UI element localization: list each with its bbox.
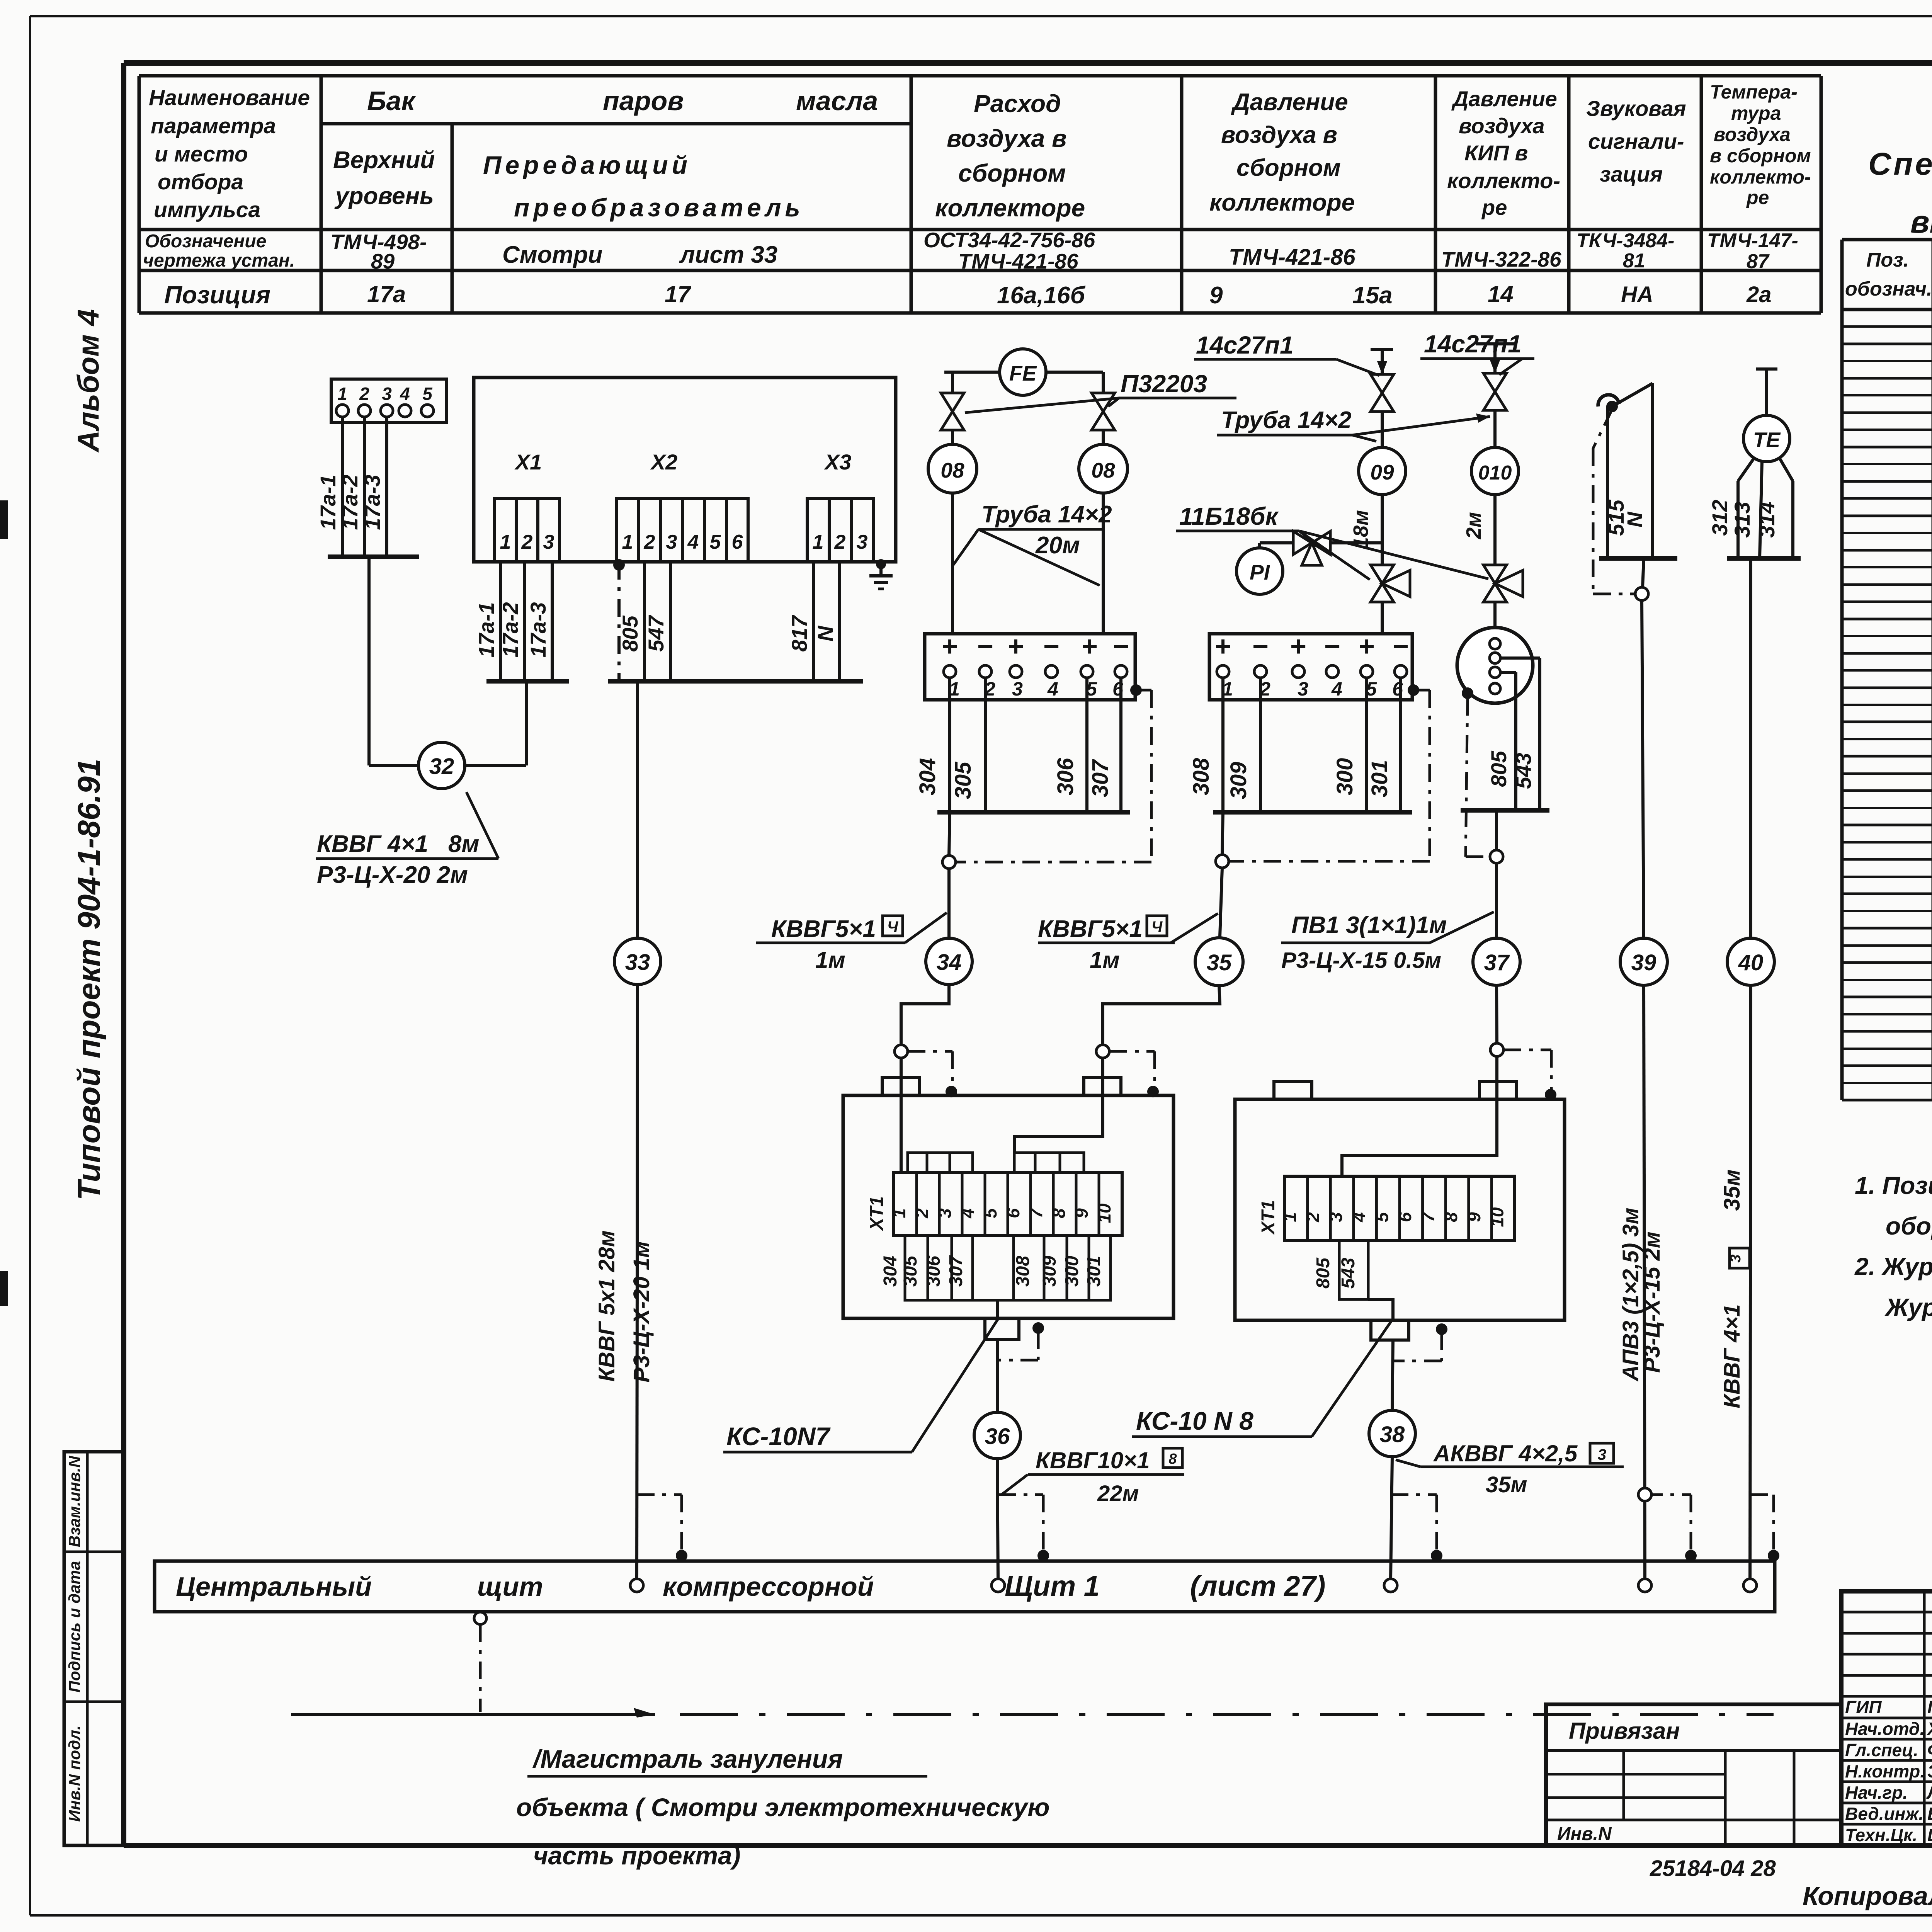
svg-text:ТМЧ-322-86: ТМЧ-322-86 <box>1441 247 1561 271</box>
svg-text:зация: зация <box>1600 162 1663 186</box>
svg-text:TE: TE <box>1753 428 1781 452</box>
valve П32203 right <box>1092 372 1115 444</box>
label 14с27п1 (09) <box>1194 331 1379 376</box>
svg-text:объекта ( Смотри электротехни: объекта ( Смотри электротехническую <box>516 1793 1050 1821</box>
N8 exit wire <box>1368 1299 1447 1410</box>
label 14с27п1 (010) <box>1420 330 1534 375</box>
svg-text:3: 3 <box>935 1208 955 1218</box>
svg-text:преобразователь: преобразователь <box>514 193 804 222</box>
valve П32203 left <box>941 372 964 444</box>
svg-text:внешних: внешних <box>1910 204 1932 240</box>
svg-text:щит: щит <box>477 1571 543 1602</box>
svg-text:параметра: параметра <box>151 114 276 138</box>
terminal box A (1..5) <box>331 379 447 422</box>
svg-text:33: 33 <box>625 950 650 975</box>
svg-text:14с27п1: 14с27п1 <box>1196 331 1294 359</box>
svg-text:5: 5 <box>422 384 433 404</box>
svg-text:3: 3 <box>666 531 677 553</box>
wire 37 inside N8 <box>1342 1099 1497 1176</box>
label Труба 14х2 20м left <box>953 501 1112 585</box>
three-way cock on 010 line <box>1483 565 1523 628</box>
svg-text:2: 2 <box>359 384 369 404</box>
svg-text:7: 7 <box>1026 1207 1046 1218</box>
svg-text:X2: X2 <box>650 450 678 474</box>
pipe stub 010 <box>1476 344 1517 373</box>
svg-text:X3: X3 <box>824 450 852 474</box>
svg-text:ре: ре <box>1481 195 1507 219</box>
shield dashdot taps above bus <box>637 1488 1779 1561</box>
svg-text:Спецификация: Спецификация <box>1868 146 1932 182</box>
svg-text:817: 817 <box>787 614 811 651</box>
svg-text:Р3-Ц-Х-20 2м: Р3-Ц-Х-20 2м <box>317 862 468 888</box>
svg-text:17а-2: 17а-2 <box>338 474 362 530</box>
svg-text:309: 309 <box>1039 1256 1060 1287</box>
svg-text:308: 308 <box>1013 1256 1033 1287</box>
svg-text:импульса: импульса <box>154 197 260 222</box>
svg-text:−: − <box>1324 631 1340 662</box>
privyazan box <box>1546 1704 1841 1845</box>
svg-text:8: 8 <box>1168 1451 1177 1467</box>
node 34 <box>926 938 972 985</box>
svg-text:Центральный: Центральный <box>176 1571 372 1602</box>
node 40 <box>1719 938 1774 1580</box>
node 08 left <box>928 444 977 634</box>
svg-text:25184-04 28: 25184-04 28 <box>1650 1856 1776 1881</box>
svg-text:−: − <box>1113 631 1129 662</box>
svg-text:Давление: Давление <box>1231 89 1348 116</box>
svg-text:6: 6 <box>1003 1208 1023 1218</box>
svg-text:и место: и место <box>155 142 248 167</box>
svg-text:9: 9 <box>1464 1212 1484 1222</box>
thermocouple TE <box>1743 369 1790 462</box>
label Труба 14х2 (right) <box>1217 407 1490 441</box>
svg-text:КВВГ 4×1: КВВГ 4×1 <box>317 831 428 857</box>
wire 33 to shield bus <box>594 985 654 1580</box>
svg-text:Р3-Ц-Х-20 1м: Р3-Ц-Х-20 1м <box>629 1241 654 1383</box>
svg-text:306: 306 <box>923 1256 944 1287</box>
svg-text:(лист 27): (лист 27) <box>1190 1570 1325 1602</box>
three-way cock at PI <box>1293 531 1382 565</box>
svg-text:2. Журнал: 2. Журнал <box>1854 1253 1932 1281</box>
wires 805 543 (connector) <box>1461 698 1549 857</box>
svg-text:8: 8 <box>1049 1208 1069 1218</box>
svg-text:39: 39 <box>1631 950 1656 975</box>
svg-text:5: 5 <box>980 1208 1000 1218</box>
svg-text:38: 38 <box>1380 1422 1405 1447</box>
valve 14с27п1 on 09 line <box>1371 374 1394 447</box>
svg-text:305: 305 <box>900 1255 921 1287</box>
wire 35 inside N7 <box>1014 1095 1103 1153</box>
strip X1 <box>495 498 560 562</box>
pressure gauge PI <box>1236 543 1293 594</box>
svg-text:отбора: отбора <box>158 170 243 194</box>
svg-text:тура: тура <box>1731 102 1781 124</box>
svg-text:КВВГ 5х1 28м: КВВГ 5х1 28м <box>594 1230 619 1381</box>
svg-text:Вед.инж.: Вед.инж. <box>1845 1804 1923 1824</box>
wire 37 into box КС-10N8 <box>1490 985 1556 1100</box>
specification table <box>1842 240 1932 1100</box>
flow element FE <box>944 349 1103 395</box>
svg-text:17а-1: 17а-1 <box>316 474 340 530</box>
label КВВГ10х1 [8] 22м <box>1002 1447 1184 1506</box>
svg-text:Григорьян: Григорьян <box>1927 1697 1932 1717</box>
svg-text:Золотарева: Золотарева <box>1927 1761 1932 1781</box>
svg-text:309: 309 <box>1226 762 1251 799</box>
label 11Б18бк <box>1176 502 1488 580</box>
pipe stub 09 <box>1371 350 1393 374</box>
grounding main tap <box>474 1612 486 1712</box>
svg-text:Подпись и дата: Подпись и дата <box>65 1561 83 1692</box>
svg-text:коллекторе: коллекторе <box>1209 189 1355 216</box>
wire 35 into box КС-10N7 right <box>1096 986 1220 1097</box>
svg-text:ТКЧ-3484-: ТКЧ-3484- <box>1577 230 1674 252</box>
svg-text:компрессорной: компрессорной <box>663 1571 874 1602</box>
valve 14с27п1 on 010 line <box>1483 373 1507 447</box>
svg-text:543: 543 <box>1511 753 1536 789</box>
svg-text:Обозначение: Обозначение <box>145 231 266 252</box>
svg-text:307: 307 <box>1088 759 1113 798</box>
svg-text:+: + <box>1082 631 1098 662</box>
label КС-10N7 <box>723 1320 998 1452</box>
svg-text:Труба 14×2: Труба 14×2 <box>1221 407 1352 434</box>
svg-text:805: 805 <box>1313 1257 1333 1289</box>
svg-text:КС-10N7: КС-10N7 <box>726 1422 831 1451</box>
svg-text:Копировал: Копировал <box>1803 1881 1932 1911</box>
svg-text:сигнали-: сигнали- <box>1588 129 1684 153</box>
junction box КС-10 N7 <box>843 1078 1173 1318</box>
svg-text:Техн.Цк.: Техн.Цк. <box>1845 1825 1917 1845</box>
svg-text:лист 33: лист 33 <box>679 241 777 268</box>
svg-text:ре: ре <box>1746 187 1769 208</box>
svg-text:2: 2 <box>521 531 533 553</box>
svg-text:35: 35 <box>1207 950 1232 975</box>
label КС-10N8 <box>1132 1321 1391 1437</box>
wire to node 37 <box>1490 810 1503 938</box>
svg-text:4: 4 <box>957 1208 978 1219</box>
svg-text:Нач.гр.: Нач.гр. <box>1845 1782 1908 1803</box>
svg-text:09: 09 <box>1370 460 1394 484</box>
svg-text:314: 314 <box>1755 502 1779 537</box>
svg-text:Привязан: Привязан <box>1569 1718 1680 1744</box>
svg-text:−: − <box>977 631 993 662</box>
svg-text:КВВГ5×1: КВВГ5×1 <box>1038 916 1143 942</box>
svg-text:010: 010 <box>1478 462 1512 484</box>
junction box КС-10 N8 <box>1235 1082 1565 1320</box>
svg-text:ТМЧ-147-: ТМЧ-147- <box>1707 230 1798 252</box>
svg-text:Альбом 4: Альбом 4 <box>71 309 105 453</box>
label Магистраль зануления <box>516 1745 1050 1870</box>
svg-text:11Б18бк: 11Б18бк <box>1179 502 1279 530</box>
wire to node 39 <box>1635 558 1648 938</box>
svg-text:FE: FE <box>1009 361 1037 385</box>
svg-text:9: 9 <box>1209 282 1223 309</box>
notes <box>1854 1172 1932 1321</box>
svg-text:6: 6 <box>1395 1212 1415 1222</box>
svg-text:2: 2 <box>1303 1212 1323 1223</box>
svg-text:коллекторе: коллекторе <box>935 194 1085 222</box>
svg-text:обознач.: обознач. <box>1845 278 1932 300</box>
wires 312 313 314 <box>1708 458 1801 558</box>
svg-text:4: 4 <box>1331 678 1342 700</box>
svg-text:ХТ1: ХТ1 <box>867 1196 887 1231</box>
svg-text:Н.контр.: Н.контр. <box>1845 1761 1925 1781</box>
svg-text:Р3-Ц-Х-15 2м: Р3-Ц-Х-15 2м <box>1639 1231 1665 1373</box>
svg-text:ХТ1: ХТ1 <box>1258 1200 1279 1235</box>
central panel bus <box>155 1561 1775 1612</box>
svg-text:89: 89 <box>371 249 395 273</box>
node 37 <box>1473 938 1520 985</box>
svg-text:4: 4 <box>687 531 699 553</box>
svg-text:304: 304 <box>880 1256 901 1287</box>
svg-text:14: 14 <box>1488 281 1514 307</box>
svg-text:КИП в: КИП в <box>1464 141 1528 165</box>
svg-text:2: 2 <box>912 1208 932 1219</box>
svg-text:воздуха в: воздуха в <box>947 124 1067 152</box>
svg-text:1: 1 <box>1280 1212 1300 1222</box>
svg-text:воздуха: воздуха <box>1714 124 1791 145</box>
svg-text:4: 4 <box>400 384 410 404</box>
svg-text:Щит 1: Щит 1 <box>1005 1570 1100 1602</box>
svg-text:Звуковая: Звуковая <box>1586 96 1686 121</box>
svg-text:Р3-Ц-Х-15 0.5м: Р3-Ц-Х-15 0.5м <box>1281 948 1441 973</box>
svg-text:1: 1 <box>813 531 824 553</box>
svg-text:PI: PI <box>1250 560 1270 584</box>
svg-text:Христофоров: Христофоров <box>1926 1719 1932 1739</box>
svg-text:4: 4 <box>1047 678 1058 700</box>
svg-text:304: 304 <box>915 758 940 796</box>
label АКВВГ 4х2,5 [3] 35м <box>1396 1440 1624 1497</box>
svg-text:805: 805 <box>1486 750 1511 787</box>
svg-text:1м: 1м <box>815 947 845 973</box>
svg-text:3: 3 <box>1728 1254 1744 1262</box>
svg-text:9: 9 <box>1071 1208 1092 1218</box>
svg-text:сборном: сборном <box>958 159 1066 187</box>
svg-text:2а: 2а <box>1746 282 1772 307</box>
title block <box>1841 1591 1932 1845</box>
svg-text:35м: 35м <box>1486 1472 1527 1497</box>
svg-text:Нач.отд.: Нач.отд. <box>1845 1719 1925 1739</box>
svg-text:6: 6 <box>732 531 743 553</box>
cable bundle 515/N <box>1593 383 1677 594</box>
svg-text:08: 08 <box>940 458 964 482</box>
svg-text:+: + <box>1008 631 1024 662</box>
strip X3 <box>807 498 873 562</box>
svg-text:сборном: сборном <box>1236 155 1341 181</box>
left margin vertical captions <box>71 309 107 1200</box>
svg-text:КВВГ 4×1: КВВГ 4×1 <box>1719 1304 1745 1408</box>
svg-text:Шрамко: Шрамко <box>1927 1825 1932 1845</box>
svg-text:543: 543 <box>1338 1258 1359 1289</box>
svg-text:17а-3: 17а-3 <box>526 602 550 657</box>
node 010 <box>1462 447 1519 565</box>
wire numbers 805 543 (N8) <box>1313 1240 1368 1299</box>
svg-text:4: 4 <box>1349 1212 1369 1223</box>
svg-text:Темпера-: Темпера- <box>1710 81 1798 103</box>
svg-text:3: 3 <box>543 531 554 553</box>
svg-text:10: 10 <box>1487 1207 1507 1227</box>
binder mark 2 <box>0 1271 8 1306</box>
svg-text:16а,16б: 16а,16б <box>997 282 1086 309</box>
svg-text:87: 87 <box>1747 250 1770 273</box>
svg-text:Смотри: Смотри <box>502 241 602 268</box>
svg-text:306: 306 <box>1053 758 1078 796</box>
svg-text:Ч: Ч <box>887 918 898 935</box>
under-frame inscriptions <box>1650 1856 1932 1911</box>
svg-text:1: 1 <box>337 384 347 404</box>
svg-text:3: 3 <box>382 384 392 404</box>
svg-text:3: 3 <box>1012 678 1023 700</box>
round connector <box>1457 628 1540 810</box>
screen dash-dot box2 <box>1230 684 1430 861</box>
binder mark <box>0 500 8 539</box>
svg-text:Взам.инв.N: Взам.инв.N <box>65 1455 83 1547</box>
svg-text:N: N <box>813 625 837 641</box>
svg-text:305: 305 <box>951 762 976 799</box>
specification title <box>1868 146 1932 240</box>
svg-text:1: 1 <box>622 531 633 553</box>
svg-text:1м: 1м <box>1090 947 1120 973</box>
svg-text:ПВ1 3(1×1)1м: ПВ1 3(1×1)1м <box>1291 912 1447 939</box>
device box X1-X3 <box>474 378 896 562</box>
svg-text:+: + <box>942 631 958 662</box>
label КВВГ5х1 [4] 1м (35) <box>1038 913 1218 973</box>
svg-text:−: − <box>1252 631 1269 662</box>
wire 34 into box КС-10N7 <box>895 985 957 1173</box>
bus terminals <box>630 1579 1757 1592</box>
svg-text:32: 32 <box>429 754 454 779</box>
svg-text:1: 1 <box>500 531 511 553</box>
svg-text:17а-3: 17а-3 <box>360 474 384 530</box>
svg-text:воздуха: воздуха <box>1459 114 1544 138</box>
svg-text:312: 312 <box>1708 500 1732 536</box>
wires 308..301 <box>1189 679 1412 812</box>
three-way cock on 09 line <box>1371 553 1410 634</box>
svg-text:22м: 22м <box>1097 1481 1139 1506</box>
svg-text:36: 36 <box>985 1424 1010 1449</box>
strip X2 <box>617 498 748 562</box>
svg-text:Расход: Расход <box>974 90 1061 117</box>
svg-text:Поз.: Поз. <box>1866 249 1909 271</box>
svg-text:08: 08 <box>1091 458 1115 482</box>
svg-text:чертежа устан.: чертежа устан. <box>143 250 295 271</box>
svg-text:Труба 14×2: Труба 14×2 <box>981 501 1112 528</box>
svg-text:Передающий: Передающий <box>483 151 691 179</box>
svg-text:ГИП: ГИП <box>1845 1697 1882 1717</box>
wires 17а-1..3 from box A <box>316 417 419 557</box>
svg-text:15а: 15а <box>1352 282 1392 309</box>
node 36 <box>974 1412 1020 1580</box>
sidebar stamp box (Инв.N подл / Подпись и дата / Взам.инв.N) <box>64 1452 124 1845</box>
svg-text:35м: 35м <box>1719 1169 1745 1211</box>
svg-text:−: − <box>1393 631 1409 662</box>
svg-text:5: 5 <box>1372 1212 1392 1222</box>
svg-text:2м: 2м <box>1462 512 1485 539</box>
terminal box 2 <box>1209 631 1412 700</box>
svg-text:1: 1 <box>889 1208 909 1218</box>
wire 33 vertical <box>636 681 639 938</box>
svg-text:КВВГ5×1: КВВГ5×1 <box>771 916 876 942</box>
svg-text:20м: 20м <box>1035 532 1080 559</box>
svg-text:оборудования ... АТХ. С01.: оборудования ... АТХ. С01. <box>1886 1212 1932 1240</box>
svg-text:37: 37 <box>1484 950 1510 975</box>
svg-text:300: 300 <box>1332 758 1357 796</box>
svg-text:Позиция: Позиция <box>164 281 270 309</box>
svg-text:Ч: Ч <box>1151 918 1163 935</box>
svg-text:2: 2 <box>644 531 655 553</box>
X1 wires 17а-1..3 <box>474 562 569 681</box>
label КВВГ5х1 [4] 1м (34) <box>756 913 947 973</box>
svg-text:масла: масла <box>796 86 878 116</box>
svg-text:уровень: уровень <box>334 183 434 209</box>
svg-text:АКВВГ 4×2,5: АКВВГ 4×2,5 <box>1433 1440 1578 1466</box>
node 08 right <box>1079 444 1128 634</box>
X2/X3 wires 805 547 817 N <box>608 559 863 681</box>
svg-text:в сборном: в сборном <box>1710 145 1811 167</box>
svg-text:34: 34 <box>937 950 962 975</box>
svg-text:ТМЧ-421-86: ТМЧ-421-86 <box>958 249 1078 273</box>
svg-text:N: N <box>1622 511 1647 527</box>
N7 exit wire <box>985 1300 1044 1412</box>
svg-text:3: 3 <box>1326 1212 1346 1222</box>
svg-text:3: 3 <box>1298 678 1308 700</box>
svg-text:ТМЧ-421-86: ТМЧ-421-86 <box>1229 245 1355 270</box>
svg-text:НА: НА <box>1621 282 1653 307</box>
svg-text:коллекто-: коллекто- <box>1710 166 1811 188</box>
screen dash-dot box1 <box>955 684 1151 862</box>
terminal box 1 <box>925 631 1135 700</box>
svg-text:313: 313 <box>1730 502 1754 537</box>
svg-text:Любимова: Любимова <box>1926 1782 1932 1803</box>
svg-text:5: 5 <box>710 531 721 553</box>
label ПВ1 3(1х1)1м <box>1281 912 1494 973</box>
svg-text:301: 301 <box>1084 1256 1104 1287</box>
svg-text:Наименование: Наименование <box>149 85 310 110</box>
svg-text:Гл.спец.: Гл.спец. <box>1845 1740 1918 1760</box>
cable label КВВГ4х1 8м <box>316 792 498 888</box>
svg-text:Бак: Бак <box>367 86 416 116</box>
node 38 <box>1369 1410 1415 1580</box>
svg-text:паров: паров <box>603 86 684 116</box>
svg-text:8м: 8м <box>448 831 479 857</box>
svg-text:Типовой проект 904-1-86.91: Типовой проект 904-1-86.91 <box>71 759 107 1200</box>
svg-text:17а: 17а <box>367 281 406 307</box>
svg-text:Инв.N: Инв.N <box>1557 1824 1612 1844</box>
wire numbers 304..301 below strip (N7) <box>880 1236 1111 1300</box>
svg-text:307: 307 <box>946 1255 966 1287</box>
svg-text:Верхний: Верхний <box>333 147 435 173</box>
strip XT1 (N7) <box>867 1153 1122 1236</box>
svg-text:17а-1: 17а-1 <box>474 602 498 657</box>
svg-text:17а-2: 17а-2 <box>498 602 522 657</box>
svg-text:1. Позиции: 1. Позиции <box>1855 1172 1932 1199</box>
node 09 <box>1349 447 1406 553</box>
svg-text:+: + <box>1215 631 1231 662</box>
wire 304 to node 34 <box>942 812 956 938</box>
node 35 <box>1195 938 1243 986</box>
node 32 <box>369 557 526 789</box>
svg-text:301: 301 <box>1367 760 1392 798</box>
svg-text:Бутенко: Бутенко <box>1927 1804 1932 1824</box>
svg-text:7: 7 <box>1418 1211 1438 1222</box>
wire 308 to node 35 <box>1216 812 1229 937</box>
svg-text:308: 308 <box>1189 758 1214 796</box>
svg-text:часть проекта): часть проекта) <box>533 1841 741 1870</box>
svg-text:Инв.N подл.: Инв.N подл. <box>65 1725 83 1822</box>
svg-text:81: 81 <box>1623 250 1645 272</box>
grounding main line <box>291 1708 1774 1718</box>
svg-text:/Магистраль зануления: /Магистраль зануления <box>532 1745 843 1773</box>
svg-text:17: 17 <box>665 281 691 307</box>
